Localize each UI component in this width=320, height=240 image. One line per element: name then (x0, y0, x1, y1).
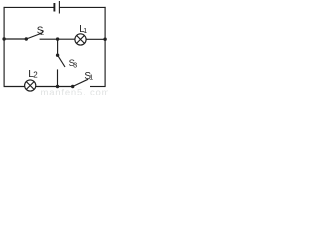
svg-text:3: 3 (73, 62, 77, 69)
svg-text:1: 1 (83, 28, 87, 35)
svg-text:manfen5. com: manfen5. com (41, 88, 109, 96)
svg-text:2: 2 (40, 30, 44, 37)
svg-text:1: 1 (89, 74, 93, 81)
svg-text:2: 2 (33, 70, 38, 79)
